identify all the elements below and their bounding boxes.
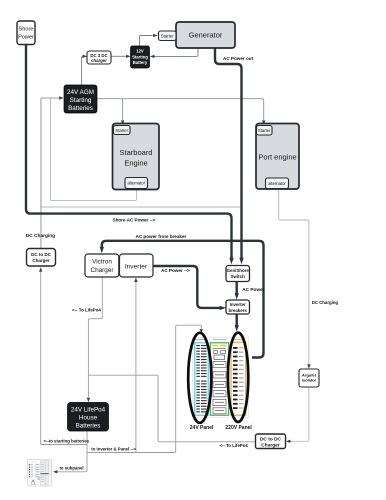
- box Victron Charger and Inverter: [85, 254, 153, 277]
- svg-text:AC Power -->: AC Power -->: [161, 268, 190, 273]
- svg-text:to subpanel: to subpanel: [60, 465, 84, 470]
- wire argofet to right DC to DC charger: [290, 387, 309, 441]
- svg-text:Gen/Shore: Gen/Shore: [227, 268, 250, 273]
- svg-text:breakers: breakers: [229, 308, 248, 313]
- svg-text:Charger: Charger: [32, 258, 50, 263]
- box Gen/Shore Switch: [226, 266, 250, 282]
- box DC 3 DC charger: [87, 51, 111, 64]
- svg-text:alternator: alternator: [127, 181, 145, 186]
- svg-text:DC Charging: DC Charging: [312, 300, 339, 305]
- thick wire gen/shore switch to inverter breakers: [235, 282, 237, 295]
- svg-text:DC to DC: DC to DC: [31, 252, 51, 257]
- svg-text:isolator: isolator: [302, 378, 317, 383]
- wire victron charger to LifePo4: [88, 277, 102, 397]
- wire bus to starting batteries: [41, 443, 87, 445]
- wire LifePo4 bottom vertical: [86, 431, 88, 471]
- box Port engine: [256, 124, 299, 190]
- box 24V LifePo4 House Batteries: [68, 403, 109, 432]
- svg-text:Charger: Charger: [261, 443, 280, 449]
- svg-text:Port engine: Port engine: [258, 153, 296, 162]
- svg-text:DC to DC: DC to DC: [260, 436, 282, 442]
- svg-text:Generator: Generator: [189, 31, 223, 40]
- svg-text:Engine: Engine: [124, 159, 147, 168]
- panel right orange section: [231, 342, 246, 415]
- box DC to DC Charger right: [256, 434, 286, 449]
- PANEL IMAGE: [193, 338, 249, 418]
- svg-text:24V Panel: 24V Panel: [190, 425, 214, 431]
- box DC to DC Charger left: [27, 249, 56, 267]
- panel middle green section: [210, 343, 228, 415]
- thick wire inverter AC out to inverter breakers: [153, 266, 221, 308]
- wire subpanel line: [57, 469, 88, 472]
- svg-text:Switch: Switch: [231, 274, 245, 279]
- box 24V AGM Starting Batteries: [64, 85, 97, 113]
- box generator Starter: [159, 31, 177, 41]
- svg-text:24V LifePo4: 24V LifePo4: [71, 407, 106, 414]
- svg-text:24V AGM: 24V AGM: [67, 89, 94, 96]
- wire below left DC to DC charger down to bus: [40, 272, 42, 445]
- panel left cyan section: [195, 343, 208, 415]
- box 12V Starting Battery: [131, 46, 150, 68]
- thick wire inverter breakers to 220V panel: [235, 314, 237, 326]
- svg-text:Inverter: Inverter: [230, 302, 246, 307]
- svg-text:Batteries: Batteries: [76, 423, 101, 430]
- ellipse 220V panel circle: [228, 333, 248, 422]
- svg-text:Power: Power: [18, 35, 34, 41]
- svg-text:AC power from breaker: AC power from breaker: [136, 234, 187, 239]
- box Argofet isolator: [299, 369, 319, 387]
- subpanel image: [28, 460, 52, 486]
- THIN WIRES GROUP: [39, 34, 311, 474]
- wire loop y375: [88, 375, 255, 442]
- wire 12V battery to generator starter: [140, 36, 153, 47]
- svg-text:Charger: Charger: [90, 267, 114, 274]
- wire DC charging vertical to AGM arrow: [41, 98, 60, 249]
- svg-text:DC Charging: DC Charging: [26, 233, 55, 239]
- box port Starter: [257, 126, 273, 136]
- svg-text:House: House: [79, 415, 98, 422]
- svg-text:Battery: Battery: [133, 60, 148, 65]
- svg-text:Argofet: Argofet: [302, 372, 317, 377]
- thick wire AC power from breaker line to victron and right side down to 220V panel: [102, 241, 264, 358]
- svg-text:AC Power: AC Power: [242, 287, 264, 292]
- svg-text:Inverter: Inverter: [125, 263, 148, 270]
- wire DC3DC charger to 12V battery left: [111, 55, 127, 57]
- wire 24V panel feed: [174, 325, 201, 452]
- box Starboard Engine: [113, 124, 160, 190]
- svg-text:Starboard: Starboard: [120, 148, 153, 157]
- svg-text:12V: 12V: [136, 49, 144, 54]
- svg-text:AC Power out: AC Power out: [223, 56, 254, 61]
- ellipse 24V panel circle: [188, 333, 211, 423]
- svg-text:220V Panel: 220V Panel: [225, 425, 252, 431]
- THICK AC LINES GROUP: [26, 45, 264, 358]
- thick wire generator AC power out line: [215, 48, 242, 259]
- svg-text:Starter: Starter: [258, 128, 271, 133]
- wire bus to inverter and panel: [87, 452, 174, 454]
- box Inverter breakers: [226, 300, 250, 314]
- wire port alternator to argofet: [279, 189, 309, 365]
- svg-text:<-- To LifePo4: <-- To LifePo4: [220, 443, 249, 448]
- panel header marks: [195, 339, 244, 341]
- svg-text:Starting: Starting: [70, 97, 92, 104]
- box Generator: [176, 22, 235, 48]
- svg-text:Victron: Victron: [92, 259, 112, 266]
- svg-text:Starting: Starting: [132, 54, 148, 59]
- box Shore Power: [17, 21, 35, 45]
- box starboard alternator: [125, 178, 148, 189]
- box starboard Starter: [114, 126, 131, 135]
- box port alternator: [266, 178, 289, 189]
- svg-text:Shore AC Power -->: Shore AC Power -->: [113, 217, 156, 222]
- svg-text:<-- To LifePo4: <-- To LifePo4: [72, 308, 101, 313]
- wire inverter feed up from bus: [135, 282, 137, 453]
- svg-text:Shore: Shore: [19, 27, 34, 33]
- wire branch to starboard starter: [122, 99, 124, 120]
- panel image background: [193, 338, 249, 418]
- wire horizontal light line y207: [41, 206, 240, 208]
- wire AGM top to DC3DC charger: [82, 56, 84, 85]
- thick wire shore power AC line: [26, 45, 232, 259]
- wire AGM right to port engine starter: [97, 99, 264, 120]
- svg-text:alternator: alternator: [268, 181, 286, 186]
- svg-text:Starter: Starter: [161, 34, 174, 39]
- svg-text:to Inverter & Panel -->: to Inverter & Panel -->: [91, 447, 136, 452]
- svg-text:charger: charger: [91, 58, 107, 63]
- svg-text:<--to starting batteries: <--to starting batteries: [44, 439, 90, 444]
- svg-text:Starter: Starter: [115, 128, 128, 133]
- svg-text:Batteries: Batteries: [68, 105, 93, 112]
- wire generator bottom to 12V battery right: [154, 48, 198, 56]
- wire starboard alternator loop to AGM feed: [50, 98, 136, 201]
